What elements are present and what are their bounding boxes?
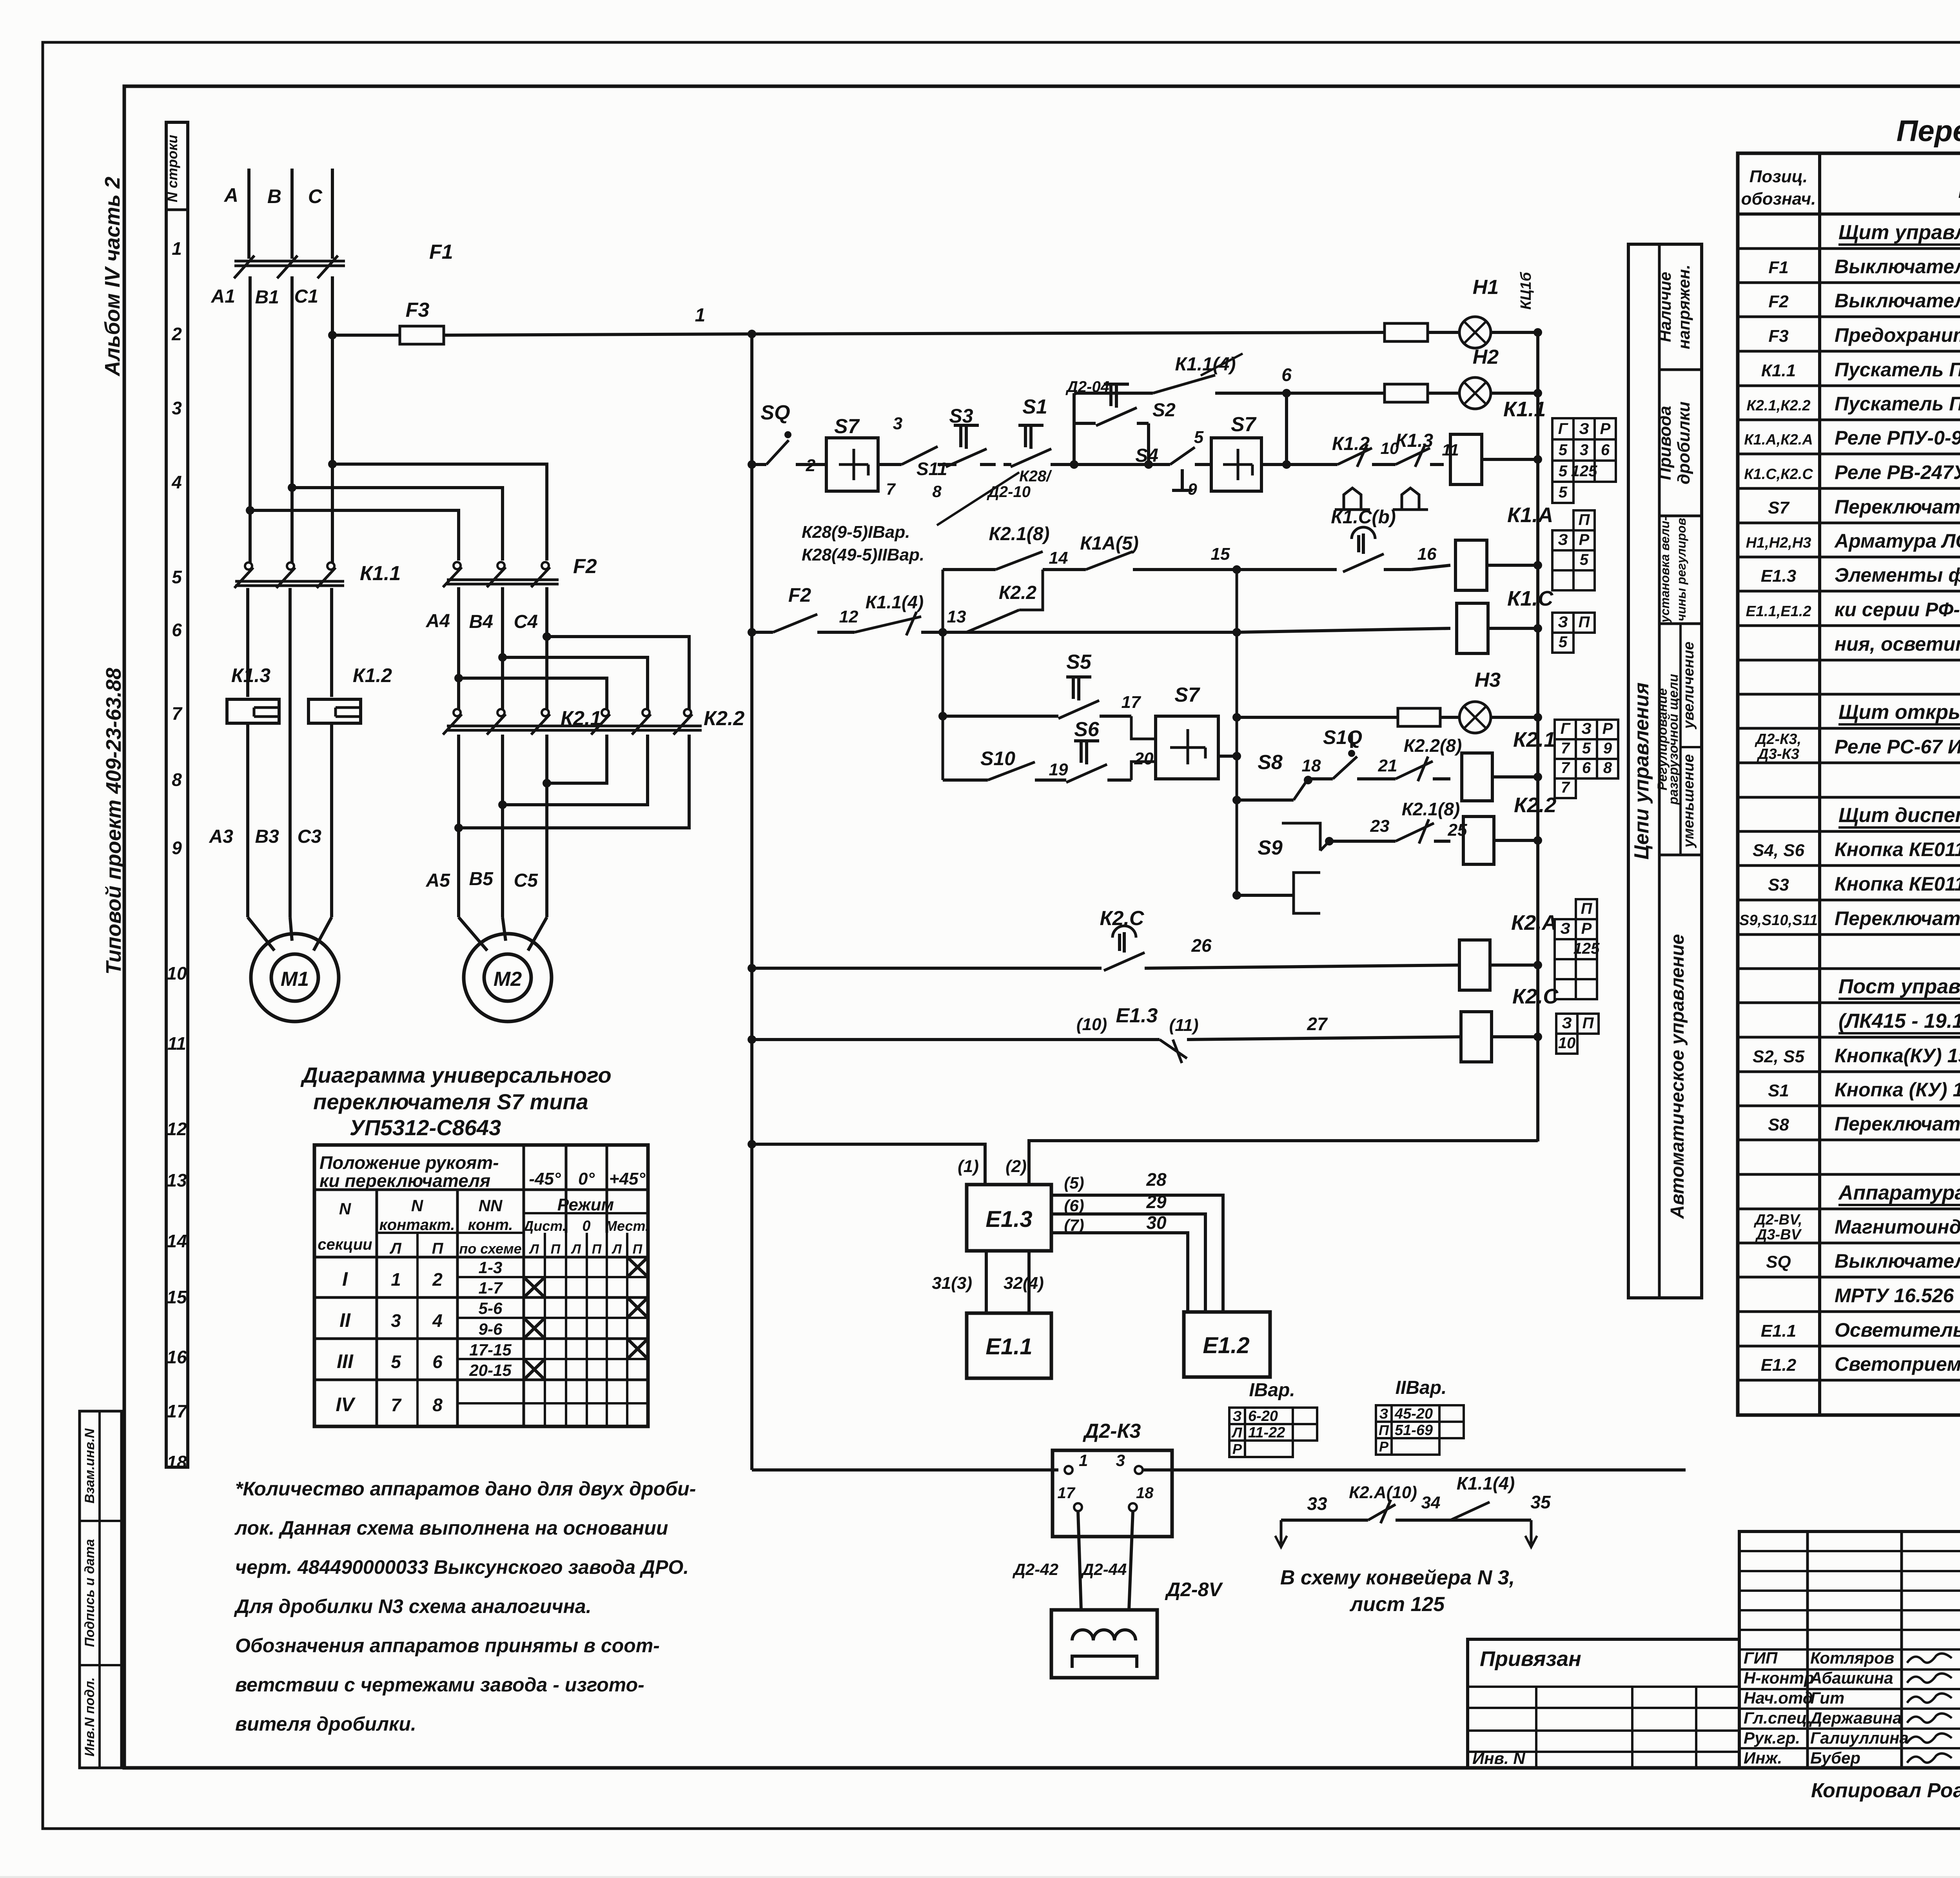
svg-text:С3: С3: [298, 826, 322, 847]
svg-text:(11): (11): [1169, 1016, 1199, 1035]
svg-text:S9,S10,S11: S9,S10,S11: [1739, 912, 1818, 929]
svg-text:Д3-К3: Д3-К3: [1757, 746, 1799, 762]
svg-text:Выключатель А3716Ф И~380В Iр1: Выключатель А3716Ф И~380В Iр125А: [1835, 256, 1960, 278]
svg-text:8: 8: [1603, 759, 1612, 777]
crossover A4 to K2.2: [454, 674, 607, 710]
svg-text:М2: М2: [494, 968, 522, 991]
svg-text:Е1.2: Е1.2: [1761, 1355, 1797, 1375]
NC contact K1.3: [1393, 430, 1459, 510]
svg-text:Е1.1: Е1.1: [985, 1334, 1032, 1359]
svg-text:Кнопка (КУ) 1з+1р, красн. „Сто: Кнопка (КУ) 1з+1р, красн. „Стоп”: [1835, 1079, 1960, 1101]
svg-text:35: 35: [1530, 1492, 1551, 1512]
svg-text:П: П: [1579, 613, 1590, 631]
svg-text:Обозначения аппаратов приняты: Обозначения аппаратов приняты в соот-: [235, 1635, 660, 1657]
svg-text:11: 11: [167, 1033, 186, 1054]
phase C line: [308, 169, 332, 259]
svg-text:16: 16: [1417, 544, 1437, 564]
wire C5: [514, 735, 547, 917]
svg-text:К28(49-5)IIВар.: К28(49-5)IIВар.: [802, 545, 924, 564]
conveyor note: [1280, 1566, 1515, 1616]
wire 1 to lamp H1: [695, 305, 1459, 341]
svg-text:10: 10: [1558, 1034, 1576, 1052]
svg-text:Р: Р: [1602, 720, 1613, 737]
svg-text:ГИП: ГИП: [1744, 1649, 1778, 1667]
selector S9: [1237, 823, 1329, 913]
svg-text:К1.1(4): К1.1(4): [1175, 354, 1236, 375]
svg-text:14: 14: [167, 1231, 187, 1251]
svg-text:30: 30: [1146, 1212, 1167, 1233]
svg-text:S7: S7: [834, 415, 860, 438]
svg-text:S1Q: S1Q: [1323, 726, 1362, 748]
svg-text:К2.А: К2.А: [1511, 911, 1557, 934]
svg-text:125: 125: [1573, 940, 1600, 957]
svg-text:Осветитель РФ-8000: Осветитель РФ-8000: [1835, 1319, 1960, 1341]
contactor K2.1 contacts: [443, 707, 601, 735]
svg-text:Привода: Привода: [1655, 406, 1675, 480]
svg-text:1-7: 1-7: [479, 1279, 503, 1297]
svg-text:Аппаратура по месту: Аппаратура по месту: [1838, 1181, 1960, 1204]
svg-text:6: 6: [1601, 441, 1610, 459]
svg-text:В схему конвейера N 3,: В схему конвейера N 3,: [1280, 1566, 1515, 1589]
svg-text:Абашкина: Абашкина: [1810, 1669, 1893, 1687]
svg-text:Г: Г: [1558, 420, 1569, 437]
contact table K2.C: [1556, 1014, 1599, 1054]
svg-text:5: 5: [172, 567, 182, 587]
contact table K1.1: [1552, 418, 1616, 503]
contact K2.1(8): [943, 524, 1070, 570]
svg-text:IV: IV: [336, 1394, 356, 1415]
svg-text:Подпись и дата: Подпись и дата: [82, 1539, 97, 1647]
wire to E1.3 input 1: [748, 1140, 985, 1185]
svg-text:8: 8: [432, 1395, 443, 1415]
wire B3 full: [289, 588, 292, 917]
cam switch S7 section 2: [1188, 413, 1261, 498]
svg-text:Арматура ЛС53У И~220В цвет.зе: Арматура ЛС53У И~220В цвет.зеленый: [1834, 530, 1960, 552]
element list title: [1896, 114, 1960, 148]
svg-text:М1: М1: [281, 968, 309, 991]
margin footer texts: [1811, 1776, 1960, 1827]
node 6 tie to H2 rung: [1261, 365, 1338, 469]
wire A4: [426, 587, 459, 710]
wire C4: [514, 587, 547, 710]
svg-text:13: 13: [167, 1170, 187, 1190]
svg-text:S1: S1: [1768, 1081, 1789, 1100]
svg-text:29: 29: [1146, 1192, 1167, 1212]
K2 tie bar: [447, 726, 702, 730]
svg-text:12: 12: [167, 1119, 187, 1139]
transformer D2-8V: [1051, 1579, 1223, 1678]
svg-text:S4, S6: S4, S6: [1753, 841, 1805, 860]
svg-text:IIВар.: IIВар.: [1396, 1377, 1447, 1398]
svg-text:Д2-ВV,: Д2-ВV,: [1753, 1212, 1802, 1228]
svg-text:С5: С5: [514, 870, 539, 891]
svg-text:ки переключателя: ки переключателя: [319, 1170, 490, 1191]
svg-text:Д2-10: Д2-10: [987, 483, 1031, 501]
svg-text:45-20: 45-20: [1394, 1406, 1433, 1422]
thermal element K1.2: [309, 664, 392, 723]
svg-text:Д2-К3: Д2-К3: [1083, 1420, 1141, 1443]
svg-text:ния, осветитель, светоприемник: ния, осветитель, светоприемник: [1835, 633, 1960, 655]
bottom rung wire: [752, 1468, 1058, 1472]
motor M1: [248, 917, 339, 1022]
svg-text:К2.С: К2.С: [1512, 985, 1559, 1008]
svg-text:Переключатель ПЕ01143исп.2,кол: Переключатель ПЕ01143исп.2,кольцо„П”: [1835, 907, 1960, 929]
svg-text:Л: Л: [611, 1242, 622, 1257]
svg-text:0: 0: [582, 1218, 590, 1234]
svg-text:2: 2: [171, 324, 182, 344]
margin note: Типовой проект 409-23-63.88: [102, 668, 125, 975]
svg-text:П: П: [592, 1242, 602, 1257]
svg-text:П: П: [633, 1242, 643, 1257]
contact table K2.1: [1555, 720, 1618, 798]
svg-text:6: 6: [1582, 759, 1591, 777]
svg-text:Типовой проект 409-23-63.88: Типовой проект 409-23-63.88: [102, 668, 125, 975]
svg-text:S1: S1: [1022, 396, 1047, 418]
svg-text:Е1.1,Е1.2: Е1.1,Е1.2: [1746, 603, 1811, 620]
svg-text:К1.С(b): К1.С(b): [1331, 507, 1396, 528]
svg-text:5: 5: [1580, 551, 1589, 568]
breaker F1: [234, 241, 453, 278]
svg-text:В1: В1: [255, 287, 279, 308]
svg-text:Е1.1: Е1.1: [1761, 1321, 1797, 1341]
svg-text:S2, S5: S2, S5: [1753, 1047, 1805, 1066]
switch S10: [943, 748, 1068, 780]
cam switch S7 section: [796, 414, 902, 498]
svg-text:-45°: -45°: [529, 1169, 561, 1188]
svg-text:28: 28: [1146, 1169, 1167, 1190]
thermal element K1.3: [227, 664, 279, 723]
svg-text:13: 13: [947, 607, 966, 626]
svg-text:Рук.гр.: Рук.гр.: [1744, 1729, 1800, 1747]
svg-text:S8: S8: [1258, 751, 1283, 774]
wires 31 32: [932, 1251, 1044, 1313]
svg-text:К2.2: К2.2: [999, 582, 1037, 603]
start button S2 parallel branch: [1065, 378, 1176, 469]
wire to thermal A: [246, 588, 249, 697]
svg-text:5: 5: [391, 1352, 401, 1372]
svg-text:7: 7: [1561, 759, 1570, 777]
svg-text:Переключатель УП5312-С8643: Переключатель УП5312-С8643: [1835, 496, 1960, 518]
svg-text:5: 5: [1559, 441, 1568, 459]
svg-text:7: 7: [391, 1395, 402, 1415]
svg-text:Р: Р: [1379, 1439, 1389, 1455]
svg-text:9: 9: [172, 838, 182, 858]
line-number column N строки: [164, 122, 188, 1472]
svg-text:К1.А,К2.А: К1.А,К2.А: [1744, 432, 1813, 448]
button S3: [938, 405, 1031, 501]
svg-text:Гит: Гит: [1810, 1689, 1844, 1707]
wire B4: [469, 587, 503, 710]
svg-text:Д2-8V: Д2-8V: [1165, 1579, 1223, 1600]
svg-text:Инж.: Инж.: [1744, 1749, 1782, 1767]
wire A1: [211, 276, 250, 564]
svg-text:К1.3: К1.3: [231, 664, 270, 686]
svg-text:обознач.: обознач.: [1741, 189, 1816, 209]
vertical link mid chain: [1232, 570, 1241, 900]
svg-text:Галиуллина: Галиуллина: [1810, 1729, 1909, 1747]
svg-text:В: В: [267, 185, 281, 207]
svg-text:К1.3: К1.3: [1396, 430, 1434, 451]
svg-text:Д2-К3,: Д2-К3,: [1755, 731, 1801, 748]
svg-text:1: 1: [391, 1269, 401, 1290]
svg-text:Реле РС-67 И~220В,комплект дат: Реле РС-67 И~220В,комплект датчик ДМ-2: [1835, 736, 1960, 758]
wire C3: [298, 723, 332, 917]
svg-text:F1: F1: [429, 241, 453, 263]
svg-text:Державина: Державина: [1809, 1709, 1902, 1727]
button S6: [1035, 718, 1156, 782]
svg-text:Пускатель ПАЕ-61244 И~220В в.к: Пускатель ПАЕ-61244 И~220В в.к.2з2р: [1835, 359, 1960, 381]
switch S11: [878, 446, 947, 501]
svg-text:напряжен.: напряжен.: [1675, 265, 1693, 349]
svg-text:К2.2(8): К2.2(8): [1404, 735, 1462, 756]
svg-text:F1: F1: [1768, 258, 1788, 277]
svg-text:Нач.отд: Нач.отд: [1744, 1689, 1813, 1707]
svg-text:6: 6: [432, 1352, 443, 1372]
svg-text:Бубер: Бубер: [1810, 1749, 1860, 1767]
svg-text:МРТУ 16.526 006-69: МРТУ 16.526 006-69: [1835, 1285, 1960, 1306]
svg-text:Режим: Режим: [557, 1195, 614, 1214]
svg-text:(ЛК415 - 19.141-5442): (ЛК415 - 19.141-5442): [1838, 1010, 1960, 1032]
svg-text:10: 10: [167, 963, 187, 983]
svg-text:17: 17: [1122, 693, 1142, 712]
phase A line: [223, 169, 249, 259]
coil K1.1: [1450, 397, 1546, 484]
svg-text:4: 4: [171, 472, 182, 492]
breaker F2: [443, 555, 597, 587]
svg-text:П: П: [432, 1240, 444, 1257]
variant I table: [1249, 1380, 1295, 1401]
button S4: [1074, 428, 1204, 490]
node A1 to F2 branch: [246, 506, 459, 561]
svg-text:18: 18: [1302, 756, 1321, 775]
svg-text:Д2-42: Д2-42: [1013, 1560, 1058, 1579]
svg-text:3: 3: [893, 414, 902, 433]
svg-text:6: 6: [172, 620, 182, 640]
svg-text:S6: S6: [1074, 718, 1100, 741]
svg-text:А1: А1: [211, 286, 235, 307]
svg-text:Наименование: Наименование: [1958, 177, 1960, 203]
svg-text:3: 3: [172, 398, 182, 418]
svg-text:Е1.2: Е1.2: [1203, 1333, 1249, 1358]
svg-text:9-6: 9-6: [479, 1320, 503, 1338]
svg-text:15: 15: [1211, 544, 1230, 564]
coil K1.A: [1411, 503, 1553, 590]
svg-text:КЦ1б: КЦ1б: [1518, 272, 1534, 310]
svg-text:Выключатель АЕ2036-2043И~380В: Выключатель АЕ2036-2043И~380В Iр10А: [1835, 290, 1960, 312]
coil K2.C: [1461, 985, 1559, 1062]
coil K1.C: [1457, 587, 1553, 653]
wire B1: [255, 276, 292, 564]
wire B5: [469, 735, 503, 917]
svg-text:9: 9: [1188, 480, 1197, 498]
block E1.1: [967, 1313, 1051, 1378]
lamp H2: [1287, 346, 1542, 409]
svg-text:чины регулиров: чины регулиров: [1674, 518, 1688, 621]
svg-text:11-22: 11-22: [1248, 1424, 1285, 1441]
svg-text:К2.1: К2.1: [1513, 728, 1555, 751]
svg-text:К2.2: К2.2: [704, 707, 744, 730]
wire A3: [209, 723, 248, 917]
svg-text:Альбом IV часть 2: Альбом IV часть 2: [101, 177, 124, 377]
svg-text:П: П: [1579, 511, 1590, 528]
svg-text:S5: S5: [1066, 651, 1092, 673]
svg-text:(2): (2): [1005, 1157, 1027, 1176]
svg-text:14: 14: [1049, 548, 1068, 568]
vertical link left chain: [938, 570, 947, 780]
lamp H1: [1459, 276, 1542, 348]
svg-text:С: С: [308, 185, 323, 207]
svg-text:дробилки: дробилки: [1674, 401, 1693, 484]
svg-text:Н2: Н2: [1473, 346, 1499, 368]
svg-text:F3: F3: [406, 299, 430, 321]
svg-text:S2: S2: [1152, 400, 1176, 421]
wire to thermal C: [330, 588, 333, 697]
binding box Привязан: [1468, 1639, 1739, 1768]
wire C1: [294, 276, 332, 564]
svg-text:Наличие: Наличие: [1656, 272, 1674, 342]
svg-text:5: 5: [1559, 463, 1568, 480]
svg-text:Магнитоиндуктивный датчик ДМ-2: Магнитоиндуктивный датчик ДМ-2: [1835, 1216, 1960, 1238]
svg-text:Положение рукоят-: Положение рукоят-: [319, 1152, 499, 1173]
svg-text:К1А(5): К1А(5): [1080, 533, 1139, 554]
svg-text:S3: S3: [1768, 875, 1789, 895]
svg-text:Инв. N: Инв. N: [1472, 1749, 1526, 1767]
svg-text:Щит диспетчера ЩД: Щит диспетчера ЩД: [1838, 804, 1960, 827]
svg-text:26: 26: [1191, 935, 1212, 956]
svg-text:С4: С4: [514, 611, 538, 632]
svg-text:F2: F2: [1768, 292, 1789, 311]
svg-text:F2: F2: [788, 584, 811, 606]
fuse F3 on wire 1: [328, 299, 752, 344]
svg-text:Р: Р: [1581, 920, 1592, 937]
svg-text:Кнопка КЕ01143 исп. 5 толк.: Кнопка КЕ01143 исп. 5 толк. красн.: [1835, 873, 1960, 895]
svg-text:Привязан: Привязан: [1480, 1647, 1581, 1671]
svg-text:SQ: SQ: [1766, 1252, 1791, 1272]
svg-text:П: П: [551, 1242, 561, 1257]
svg-text:Инв.N подл.: Инв.N подл.: [82, 1677, 97, 1756]
svg-text:3: 3: [1580, 441, 1588, 459]
svg-text:Л: Л: [528, 1242, 539, 1257]
svg-text:К1.2: К1.2: [1332, 434, 1370, 454]
notes text block: [234, 1478, 696, 1735]
svg-text:Пост управления Д2-ПУ(Д3-ПУ): Пост управления Д2-ПУ(Д3-ПУ): [1838, 975, 1960, 998]
svg-text:S3: S3: [949, 405, 973, 427]
svg-text:Щит открытый 1Щ: Щит открытый 1Щ: [1838, 701, 1960, 724]
svg-text:К2.С: К2.С: [1100, 907, 1145, 930]
svg-text:N: N: [411, 1196, 424, 1215]
svg-text:S7: S7: [1231, 413, 1257, 436]
svg-text:Л: Л: [570, 1242, 581, 1257]
svg-text:К1.1: К1.1: [1761, 361, 1796, 380]
photo relay contact E1.3 rung27: [748, 1004, 1461, 1063]
svg-text:8: 8: [172, 769, 182, 790]
svg-text:З: З: [1379, 1406, 1388, 1422]
svg-text:(10): (10): [1076, 1015, 1107, 1034]
svg-text:установка вели-: установка вели-: [1658, 517, 1672, 623]
svg-text:К1.2: К1.2: [353, 664, 392, 686]
svg-text:Р: Р: [1600, 420, 1611, 437]
svg-text:S7: S7: [1768, 498, 1790, 517]
phase B line: [267, 169, 292, 259]
svg-text:В3: В3: [255, 826, 279, 847]
svg-text:К1.1(4): К1.1(4): [1457, 1473, 1515, 1493]
wire 30: [1051, 1212, 1188, 1312]
svg-text:3: 3: [1116, 1451, 1125, 1470]
svg-text:Кнопка(КУ) 1з+1р , черн „Пуск”: Кнопка(КУ) 1з+1р , черн „Пуск”: [1835, 1045, 1960, 1067]
svg-text:Позиц.: Позиц.: [1749, 167, 1808, 186]
svg-text:уменьшение: уменьшение: [1681, 754, 1697, 848]
button S1 stop: [1004, 396, 1074, 485]
svg-text:Н-контр: Н-контр: [1744, 1669, 1814, 1687]
svg-text:9: 9: [1603, 740, 1612, 757]
svg-text:В5: В5: [469, 869, 494, 889]
svg-text:К1.С,К2.С: К1.С,К2.С: [1744, 466, 1813, 483]
svg-text:S10: S10: [980, 748, 1015, 769]
svg-text:Перечень элементов: Перечень элементов: [1896, 114, 1960, 148]
svg-text:П: П: [1379, 1422, 1389, 1438]
svg-text:SQ: SQ: [760, 401, 790, 424]
svg-text:вителя дробилки.: вителя дробилки.: [235, 1713, 416, 1735]
svg-text:15: 15: [167, 1287, 187, 1307]
NC contact K2.2(8): [1357, 735, 1462, 781]
title block: [1739, 1531, 1960, 1768]
svg-text:S8: S8: [1768, 1115, 1789, 1134]
switch S1Q: [1308, 726, 1397, 779]
svg-text:Элементы фотоэлектрической ав: Элементы фотоэлектрической автомати: [1835, 564, 1960, 586]
svg-text:П: П: [1581, 900, 1593, 917]
S7 position diagram table: [314, 1145, 649, 1426]
svg-text:Е1.3: Е1.3: [1116, 1004, 1158, 1027]
svg-text:7: 7: [886, 480, 896, 498]
svg-text:1: 1: [695, 305, 706, 326]
wire 29: [1051, 1192, 1205, 1312]
svg-text:К2.1(8): К2.1(8): [1402, 799, 1460, 819]
svg-text:К2.2: К2.2: [1514, 793, 1556, 817]
svg-text:черт. 484490000033 Выксунского: черт. 484490000033 Выксунского завода ДР…: [235, 1556, 689, 1578]
svg-text:(1): (1): [958, 1157, 979, 1176]
svg-text:18: 18: [1136, 1484, 1154, 1502]
svg-text:Диаграмма универсального: Диаграмма универсального: [300, 1063, 611, 1087]
svg-text:К28(9-5)IВар.: К28(9-5)IВар.: [802, 523, 910, 542]
node B1 to F2 branch: [288, 483, 503, 561]
svg-text:32(4): 32(4): [1004, 1274, 1044, 1293]
svg-text:1-3: 1-3: [479, 1258, 503, 1277]
rung4 wire to coil K1.C: [943, 628, 1450, 637]
wire to E1.3 input 2: [1005, 1141, 1538, 1185]
K2.2 pole returns: [454, 735, 689, 832]
svg-text:А: А: [223, 184, 238, 206]
svg-text:Реле РПУ-0-96144 И~220В: Реле РПУ-0-96144 И~220В: [1835, 427, 1960, 449]
svg-text:К2.1(8): К2.1(8): [989, 524, 1050, 544]
cam switch S7 section 3: [1156, 684, 1237, 779]
lamp H3: [1237, 669, 1542, 733]
svg-text:ки серии РФ-8000в комплекте: б: ки серии РФ-8000в комплекте: блок пита-: [1835, 599, 1960, 621]
svg-text:31(3): 31(3): [932, 1274, 972, 1293]
svg-text:З: З: [1558, 531, 1568, 548]
svg-text:Предохранитель ППТ-1043, 6А: Предохранитель ППТ-1043, 6А: [1835, 324, 1960, 346]
svg-text:по схеме: по схеме: [459, 1241, 521, 1257]
svg-text:Дист.: Дист.: [522, 1218, 566, 1234]
svg-text:34: 34: [1421, 1493, 1441, 1512]
svg-text:S11: S11: [916, 459, 947, 479]
svg-text:Л: Л: [1231, 1424, 1243, 1441]
aux contact K1.1(4) on H2 rung: [1074, 354, 1287, 393]
svg-text:6-20: 6-20: [1248, 1408, 1278, 1424]
svg-text:К1.1: К1.1: [360, 562, 401, 585]
svg-text:контакт.: контакт.: [379, 1216, 455, 1234]
element list table: [1738, 153, 1960, 1415]
svg-text:5: 5: [1559, 633, 1568, 651]
